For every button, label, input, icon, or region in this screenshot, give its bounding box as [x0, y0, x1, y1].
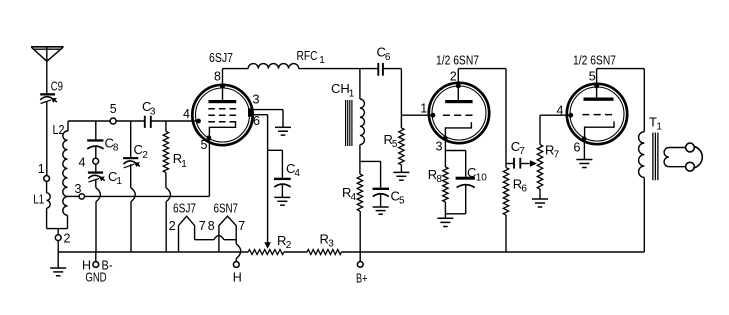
ground C5 [373, 207, 389, 214]
cathode V3 [585, 121, 614, 138]
svg-text:CH: CH [331, 81, 350, 96]
wire RFC1 to C6 [299, 68, 379, 70]
svg-text:8: 8 [214, 70, 221, 84]
pin 3 wire [254, 109, 284, 111]
cathode junction dot V3 [582, 137, 586, 141]
ground C4 [274, 197, 290, 205]
wiper arrow R7 [530, 160, 537, 167]
wire C9 to node 1 [46, 102, 48, 176]
resistor R3 [307, 231, 341, 254]
svg-text:10: 10 [476, 173, 488, 184]
transformer T1 primary [639, 114, 663, 252]
svg-text:4: 4 [183, 107, 190, 121]
terminal H B- GND [82, 252, 113, 284]
wire node 3 to cathode [85, 195, 210, 197]
grid dashes V2 [443, 114, 473, 116]
ground cathode V3 [576, 160, 592, 168]
ground [50, 252, 66, 276]
cathode lead V3 pin 6 [583, 139, 585, 160]
svg-text:1: 1 [656, 122, 662, 133]
wire node5 to C8 [95, 121, 97, 139]
pin label 3 V2 [436, 140, 443, 154]
plate lead V2 pin 2 [456, 69, 460, 100]
terminal H [233, 262, 242, 285]
node 4 [79, 156, 99, 170]
coil L2 [53, 121, 69, 229]
grid junction dot pin 4 [197, 119, 201, 123]
svg-text:7: 7 [238, 219, 245, 233]
variable capacitor C1 [88, 169, 123, 187]
svg-text:4: 4 [79, 156, 86, 170]
resistor R7 [537, 115, 559, 189]
pin label 8 [214, 70, 221, 84]
resistor R8 [428, 151, 448, 214]
transformer T1 core [653, 133, 658, 181]
pin label 3 [253, 93, 260, 107]
svg-text:7: 7 [199, 219, 206, 233]
wire R7 to grid pin 4 [540, 113, 573, 117]
pin label 5 V3 [589, 69, 596, 83]
cathode junction dot V2 [443, 136, 447, 140]
cathode junction dot [207, 136, 211, 140]
resistor R4 [342, 161, 363, 211]
capacitor C7 [506, 139, 525, 169]
capacitor C5 [373, 161, 406, 207]
resistor R1 [163, 131, 187, 172]
svg-text:5: 5 [201, 138, 208, 152]
capacitor C10 [456, 165, 488, 214]
svg-text:6SJ7: 6SJ7 [209, 50, 233, 65]
node 5 [110, 102, 117, 124]
wire R8 C10 join [445, 213, 465, 215]
capacitor C8 [87, 136, 119, 159]
plate lead V1 pin 8 [221, 69, 225, 100]
heater connector wire [195, 236, 237, 240]
svg-text:6: 6 [574, 140, 581, 154]
capacitor C4 [274, 161, 300, 198]
terminal B+ [356, 252, 368, 285]
resistor R6 [503, 164, 527, 253]
svg-text:2: 2 [450, 69, 457, 83]
svg-text:1: 1 [349, 89, 355, 100]
pin label 2 [450, 69, 457, 83]
heater socket 6SN7 [219, 216, 236, 252]
heater pin label 8 [208, 219, 215, 233]
wire C2 to ground bus [131, 164, 136, 252]
svg-text:1: 1 [420, 102, 427, 116]
resistor R5 [384, 115, 405, 165]
cathode lead V2 pin 3 [444, 138, 446, 150]
svg-text:B+: B+ [356, 271, 368, 285]
potentiometer R2 [248, 233, 292, 255]
cathode lead V1 pin 5 [208, 138, 210, 197]
ground R8 C10 [437, 214, 453, 227]
svg-text:1: 1 [38, 162, 45, 176]
wire plate V3 to T1 [597, 69, 645, 132]
heater pin label 7b [238, 219, 245, 233]
svg-text:3: 3 [75, 182, 82, 196]
plate lead V3 pin 5 [595, 69, 599, 98]
node 3 [68, 182, 85, 199]
wire C7 to R7 wiper [520, 163, 529, 165]
svg-text:1/2 6SN7: 1/2 6SN7 [436, 53, 479, 68]
pin label 4 [183, 107, 190, 121]
choke CH1 [331, 69, 364, 162]
node 2 [55, 229, 70, 252]
wire C6 to grid node [383, 69, 402, 116]
cathode V1 [209, 122, 235, 138]
grid dashes V1 [208, 109, 236, 122]
svg-text:GND: GND [86, 270, 107, 284]
svg-text:5: 5 [110, 102, 117, 116]
svg-text:4: 4 [294, 168, 300, 179]
ground R7 [532, 189, 548, 207]
wire ground bus [58, 251, 248, 253]
wire R2 to R3 [284, 251, 307, 253]
tube V1 6SJ7 envelope [192, 50, 252, 145]
heater pin label 7 [199, 219, 206, 233]
variable capacitor C2 [123, 142, 148, 168]
svg-text:5: 5 [589, 69, 596, 83]
heater pin label 2 [169, 219, 176, 233]
pin label 4 V3 [557, 103, 564, 117]
grid dashes V3 [582, 114, 612, 116]
svg-text:L2: L2 [53, 122, 65, 137]
wire screen to R2 wiper [267, 115, 269, 243]
svg-text:3: 3 [436, 140, 443, 154]
svg-text:3: 3 [328, 239, 334, 250]
headphones jack [686, 143, 703, 171]
node 1 [38, 162, 50, 182]
wire node4 to C1 [95, 164, 97, 171]
wire top to R1 [165, 121, 167, 131]
capacitor C6 [377, 45, 391, 76]
heater labels [173, 200, 238, 215]
plate bar V1 [209, 100, 237, 103]
svg-text:1: 1 [116, 176, 122, 187]
tube V2 1/2 6SN7 envelope [429, 53, 489, 144]
wire antenna to C9 [46, 61, 48, 93]
svg-text:6: 6 [385, 52, 391, 63]
pin label 6 [253, 114, 260, 128]
svg-text:5: 5 [399, 196, 405, 207]
svg-text:1/2 6SN7: 1/2 6SN7 [573, 53, 616, 68]
svg-text:5: 5 [392, 139, 398, 150]
pin label 1 [420, 102, 427, 116]
svg-text:6SJ7: 6SJ7 [173, 200, 196, 215]
screen junction square [248, 108, 254, 116]
wire R1 to ground bus [166, 173, 171, 252]
pin label 6 V3 [574, 140, 581, 154]
capacitor C3 [142, 99, 156, 128]
svg-text:2: 2 [64, 232, 71, 246]
wire C3 to grid pin 4 [151, 120, 199, 122]
svg-text:6: 6 [521, 184, 527, 195]
wiper arrow R2 [264, 242, 271, 249]
wire plate V2 to C7 node [458, 69, 506, 164]
svg-text:3: 3 [253, 93, 260, 107]
transformer T1 secondary [664, 148, 685, 167]
wire plate V1 to RFC1 [223, 68, 249, 70]
wire top to C2 [130, 121, 132, 157]
ground R5 [393, 165, 409, 180]
wire cathode to C10 [445, 151, 465, 177]
svg-text:7: 7 [554, 150, 560, 161]
inductor RFC1 [248, 48, 325, 69]
coil L1 [33, 182, 50, 229]
svg-text:6: 6 [253, 114, 260, 128]
wire B+ bus [341, 251, 644, 253]
pin 6 wire [254, 114, 268, 116]
svg-text:8: 8 [208, 219, 215, 233]
svg-text:7: 7 [519, 146, 525, 157]
svg-text:4: 4 [351, 192, 357, 203]
variable capacitor C9 [40, 79, 63, 104]
svg-text:8: 8 [113, 143, 119, 154]
pin label 5 [201, 138, 208, 152]
wire grid node to pin 1 [401, 113, 434, 117]
antenna [31, 47, 64, 62]
wire to H terminal [236, 244, 241, 262]
svg-text:H: H [233, 270, 242, 284]
wire pin6 to C4 [268, 150, 283, 177]
svg-text:2: 2 [286, 240, 292, 251]
svg-text:1: 1 [181, 159, 187, 170]
ground pin 3 [275, 110, 291, 136]
wire L1-L2 bottom [47, 228, 68, 230]
plate bar V2 [445, 100, 472, 103]
svg-text:L1: L1 [33, 192, 44, 207]
wire CH1 to R4 C5 [360, 160, 381, 162]
svg-text:8: 8 [436, 174, 442, 185]
svg-text:2: 2 [142, 150, 148, 161]
wire C1 to ground bus [96, 179, 101, 252]
tube V3 1/2 6SN7 envelope [567, 53, 627, 145]
wire R4 to B+ junction [359, 211, 361, 252]
svg-text:3: 3 [150, 106, 156, 117]
plate bar V3 [584, 98, 614, 101]
svg-text:4: 4 [557, 103, 564, 117]
svg-text:6SN7: 6SN7 [214, 200, 239, 215]
svg-text:1: 1 [319, 55, 325, 66]
svg-text:C9: C9 [51, 79, 63, 94]
wire L2 top to C3 [68, 120, 145, 122]
svg-text:2: 2 [169, 219, 176, 233]
svg-text:RFC: RFC [297, 48, 318, 63]
cathode V2 [445, 122, 471, 138]
heater socket 6SJ7 [179, 216, 195, 252]
